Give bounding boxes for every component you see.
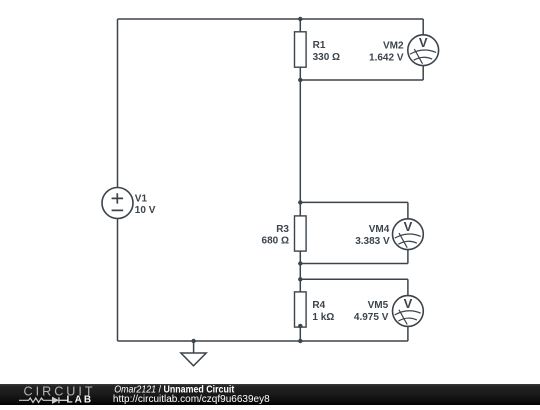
node R4 bottom junction [298,324,302,328]
wire VM2 column [422,19,424,80]
node VM4 bottom junction [298,261,302,265]
wire VM4 top rail [300,201,408,203]
svg-text:1.642 V: 1.642 V [369,52,404,63]
resistor R4 [295,292,335,327]
wire top rail [118,18,424,20]
svg-text:V: V [404,219,413,234]
wire VM5 top rail [300,278,408,280]
node top junction [298,17,302,21]
svg-text:4.975 V: 4.975 V [354,312,389,323]
svg-text:VM4: VM4 [369,224,390,235]
V1 plus and minus marks [112,193,124,210]
VM4 meter needle [399,233,407,248]
svg-text:1 kΩ: 1 kΩ [312,312,334,323]
svg-text:10 V: 10 V [135,205,156,216]
node bottom rail junction [298,339,302,343]
VM5 meter needle [399,310,407,325]
svg-text:http://circuitlab.com/czqf9u66: http://circuitlab.com/czqf9u6639ey8 [113,394,270,405]
CircuitLab logo [19,385,96,406]
svg-text:330 Ω: 330 Ω [313,52,340,63]
svg-text:680 Ω: 680 Ω [262,236,289,247]
VM5 meter scale arcs [395,311,421,321]
wire ground stub [193,341,195,353]
svg-text:VM2: VM2 [383,41,404,52]
footer bar [0,384,540,405]
wire left rail [117,19,119,341]
voltage source V1 [102,188,156,219]
wire middle column [299,19,301,341]
VM4 meter scale arcs [395,234,421,244]
svg-text:LAB: LAB [67,395,94,405]
VM2 meter scale arcs [410,50,436,60]
svg-text:V1: V1 [135,194,148,205]
resistor R1 [295,32,341,67]
wire bottom rail [118,340,408,342]
svg-text:V: V [419,35,428,50]
svg-text:R1: R1 [313,40,326,51]
wire VM5 column [407,279,409,341]
resistor R3 [262,216,307,251]
node VM4 top junction [298,200,302,204]
wire VM4 bottom rail [300,263,408,265]
node ground junction [191,339,195,343]
node VM2 bottom junction [298,78,302,82]
VM2 meter needle [414,49,422,64]
svg-text:V: V [404,296,413,311]
svg-text:R4: R4 [312,300,325,311]
ground [181,353,206,366]
node VM5 top junction [298,277,302,281]
wire VM2 bottom rail [300,79,423,81]
svg-text:R3: R3 [276,224,289,235]
wire VM4 column [407,202,409,263]
voltmeter VM5 [354,296,423,327]
voltmeter VM4 [355,219,423,250]
voltmeter VM2 [369,35,439,66]
svg-text:VM5: VM5 [368,300,389,311]
svg-text:3.383 V: 3.383 V [355,236,390,247]
